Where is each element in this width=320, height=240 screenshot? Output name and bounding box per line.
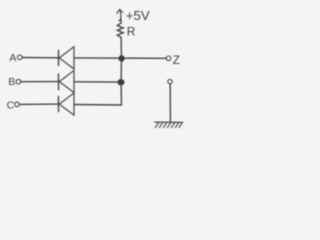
input terminal C [15,102,20,107]
svg-text:C: C [7,99,15,111]
power +5V arrow [117,9,123,20]
resistor R [117,19,123,48]
junction node B [118,79,125,85]
junction node A [118,55,124,61]
svg-text:Z: Z [173,53,180,67]
input terminal A [18,55,23,60]
svg-text:B: B [8,76,15,88]
diode (C input) [59,93,75,115]
wire: A terminal to diode [22,57,58,59]
wire: diode B to node B [74,81,119,83]
wire: C terminal to diode [19,103,58,105]
ground terminal [168,79,172,83]
wire: diode C right then up to node B [74,84,122,105]
svg-text:R: R [127,25,136,39]
wire: bus from resistor to node A [120,48,122,58]
wire: ground terminal to ground [169,84,171,122]
wire: diode A to output Z [74,57,166,59]
svg-text:A: A [9,52,16,64]
wire: bus from node A to node B [120,58,122,82]
svg-text:+5V: +5V [126,8,150,23]
diode (A input) [59,47,75,69]
wire: B terminal to diode [21,81,58,83]
output terminal Z [166,56,171,61]
input terminal B [16,79,21,84]
ground [155,122,183,128]
diode (B input) [59,70,75,92]
